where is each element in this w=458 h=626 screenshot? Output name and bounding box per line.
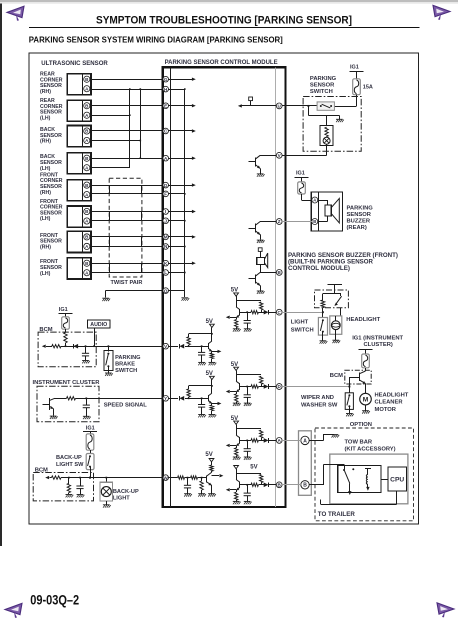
wire module pin B to connector B xyxy=(282,484,301,486)
svg-text:PARKING: PARKING xyxy=(347,206,374,212)
connector pin B xyxy=(301,481,309,489)
ultrasonic sensor REAR CORNER SENSOR (RH) xyxy=(40,72,91,95)
comparator arrow (tow bar input A) xyxy=(230,445,236,447)
diode (speed signal input) xyxy=(179,396,184,401)
parking brake switch xyxy=(104,345,113,372)
internal signal arrow (pin K) xyxy=(169,263,193,265)
transistor (parking brake input buffer) xyxy=(209,341,212,351)
module pin L xyxy=(163,270,169,276)
internal buzzer (front) speaker symbol xyxy=(257,248,268,273)
collector feed (parking brake input) xyxy=(211,334,213,341)
ground (divider resistor back-up) xyxy=(198,494,206,497)
wire module pin U to switch xyxy=(282,105,317,107)
svg-text:B: B xyxy=(303,483,307,489)
wire front RH pin A to module pin N xyxy=(91,246,163,248)
module pin V xyxy=(163,343,169,349)
signal arrow into logic (parking brake input) xyxy=(212,351,217,353)
series resistor 2 (back-up input) xyxy=(191,476,198,479)
wire front corner LH pin A to module pin J xyxy=(91,220,163,222)
ground (emitter resistor parking brake input) xyxy=(209,362,217,365)
twist pair crossover front corner RH xyxy=(109,185,111,194)
comparator arrow (tow bar input B) xyxy=(230,489,236,491)
5V supply triangle (tow bar input A) xyxy=(234,421,239,424)
wire front corner LH pin B to module pin I xyxy=(91,211,163,213)
filter capacitor (speed signal input) xyxy=(198,405,205,408)
ultrasonic sensor FRONT SENSOR (RH) xyxy=(40,231,91,252)
relay contact lever xyxy=(335,296,342,305)
IG1 feed bar (rear buzzer) xyxy=(295,177,309,179)
ground (BCM back-up resistor) xyxy=(66,495,74,498)
module right pin B at y=484.8 xyxy=(276,482,282,488)
headlight relay feed bar xyxy=(328,284,342,286)
svg-text:IG1: IG1 xyxy=(350,65,359,71)
pull-up resistor (wiper washer input) xyxy=(260,376,263,384)
svg-text:(BUILT-IN PARKING SENSOR: (BUILT-IN PARKING SENSOR xyxy=(288,259,374,265)
transistor (light switch input buffer) xyxy=(236,307,240,318)
buzzer speaker symbol xyxy=(318,198,340,223)
svg-text:PARKING SENSOR SYSTEM WIRING D: PARKING SENSOR SYSTEM WIRING DIAGRAM [PA… xyxy=(29,34,283,44)
ground (emitter resistor light switch input) xyxy=(233,329,241,332)
internal wire pin U with arrow xyxy=(242,105,277,107)
BCM dash-dot box (headlight cleaner) xyxy=(345,370,371,384)
svg-text:I: I xyxy=(165,209,166,214)
internal signal arrow (pin D) xyxy=(169,185,193,187)
svg-text:L: L xyxy=(164,270,167,275)
fuse (rear buzzer IG1) xyxy=(298,182,306,194)
resistor (BCM pull-up) xyxy=(64,332,67,342)
wire CPU to trailer xyxy=(396,491,398,505)
signal arrow into logic (speed signal input) xyxy=(212,403,217,405)
module pin Q xyxy=(163,288,169,294)
ground (filter capacitor parking brake input) xyxy=(198,362,206,365)
fuse 15A (parking sensor switch) xyxy=(353,79,361,95)
svg-text:W: W xyxy=(164,475,169,480)
module inner line left xyxy=(170,67,172,507)
svg-text:J: J xyxy=(164,218,167,223)
wire BCM to motor xyxy=(365,384,367,394)
twist pair crossover front LH xyxy=(109,263,111,272)
BCM dash-dot box (back-up) xyxy=(33,473,93,501)
emitter resistor (light switch input) xyxy=(235,320,238,328)
capacitor branch (BCM) xyxy=(85,346,87,353)
5V supply triangle (speed signal input) xyxy=(210,376,215,379)
module pin N xyxy=(163,244,169,250)
resistor (BCM back-up series) xyxy=(52,476,62,479)
BCM dash-dot box xyxy=(38,332,96,367)
ground (parking brake switch) xyxy=(105,373,113,376)
fuse (BCM IG1) xyxy=(62,317,70,329)
transistor (speed signal, instrument cluster) xyxy=(43,398,55,416)
tow bar CPU box xyxy=(388,467,407,491)
5V supply triangle (light switch input) xyxy=(234,293,239,296)
ground (tow bar A) xyxy=(331,435,339,438)
svg-text:Y: Y xyxy=(164,396,167,401)
module pin E xyxy=(163,103,169,109)
module pin A xyxy=(163,155,169,161)
wire fuse to resistor (BCM) xyxy=(65,329,67,332)
internal signal arrow (pin G) xyxy=(169,79,193,81)
filter capacitor (wiper washer input) xyxy=(244,395,251,398)
svg-text:BACK-UP: BACK-UP xyxy=(113,489,139,495)
wire module pin Q to chassis ground xyxy=(106,290,163,292)
svg-text:PARKING: PARKING xyxy=(310,76,337,82)
divider resistor (back-up input) xyxy=(200,481,203,490)
internal terminal stub (pin U) xyxy=(250,101,252,106)
module pin I xyxy=(163,209,169,215)
BCM back-up wire to module pin W xyxy=(49,477,51,479)
comparator arrow (wiper washer input) xyxy=(230,391,236,393)
wire back RH pin B to module pin C xyxy=(91,130,163,132)
input line (tow bar input B) xyxy=(240,484,251,486)
5V supply triangle (back-up buffer) xyxy=(209,459,214,462)
internal return stub pin N xyxy=(169,246,185,248)
wire BCM base to wiper line xyxy=(349,377,351,393)
nav arrow bottom-left xyxy=(5,603,22,618)
svg-text:SYMPTOM TROUBLESHOOTING [PARKI: SYMPTOM TROUBLESHOOTING [PARKING SENSOR] xyxy=(96,15,352,27)
svg-text:(RH): (RH) xyxy=(40,139,51,145)
svg-text:(LH): (LH) xyxy=(40,216,51,222)
module pin M xyxy=(163,234,169,240)
switch illumination lamp xyxy=(320,126,333,146)
internal signal arrow (pin M) xyxy=(169,236,193,238)
svg-text:LIGHT SW: LIGHT SW xyxy=(56,462,84,468)
filter capacitor (tow bar input B) xyxy=(244,493,251,496)
wire front LH pin A to module pin L xyxy=(91,272,163,274)
BCM output wire to module pin V xyxy=(46,346,52,348)
filter capacitor branch (light switch input) xyxy=(247,312,249,320)
module right pin B at y=272.4 xyxy=(276,270,282,276)
svg-text:(RH): (RH) xyxy=(40,89,51,95)
transistor (tow bar input A buffer) xyxy=(236,435,240,446)
transistor (headlight cleaner driver) xyxy=(349,371,365,384)
ground (emitter resistor wiper washer input) xyxy=(233,403,241,406)
svg-text:BCM: BCM xyxy=(330,373,343,379)
module pin K xyxy=(163,260,169,266)
relay coil xyxy=(321,300,325,308)
ground (module internal, pin Q bus) xyxy=(181,298,189,301)
transistor (speed signal input buffer) xyxy=(209,393,212,403)
lamp series resistor xyxy=(325,127,328,136)
buzzer inner connector line xyxy=(318,192,320,231)
collector feed (speed signal input) xyxy=(211,386,213,393)
wire switch to lamp and ground xyxy=(308,106,310,116)
sensor return vertical bus 2 xyxy=(140,89,142,158)
ultrasonic sensor BACK SENSOR (RH) xyxy=(40,126,91,147)
svg-text:BRAKE: BRAKE xyxy=(115,361,135,367)
svg-text:M: M xyxy=(363,397,369,404)
svg-text:INSTRUMENT CLUSTER: INSTRUMENT CLUSTER xyxy=(33,380,101,386)
ground (emitter resistor tow bar input B) xyxy=(233,501,241,504)
transistor front buzzer driver xyxy=(248,272,260,290)
svg-text:HEADLIGHT: HEADLIGHT xyxy=(346,317,380,323)
emitter resistor (tow bar input B) xyxy=(235,492,238,500)
title underline xyxy=(29,27,420,29)
switch junction xyxy=(307,105,309,107)
wire lamp to module pin V(right) xyxy=(326,136,328,139)
wire rear corner LH pin B to module pin E xyxy=(91,105,163,107)
svg-text:5V: 5V xyxy=(206,319,213,325)
svg-text:(LH): (LH) xyxy=(40,271,51,277)
wire fuse to switch xyxy=(90,450,92,453)
ground (emitter of switch lamp driver) xyxy=(257,174,265,177)
internal driver collector wire (rear buzzer) xyxy=(260,221,276,223)
5V feed wire (wiper washer input) xyxy=(236,371,238,382)
parking sensor switch contact xyxy=(317,102,334,110)
buzzer pin B xyxy=(312,219,318,225)
ground (filter capacitor speed signal input) xyxy=(198,415,206,418)
headlight cleaner motor xyxy=(360,393,372,405)
svg-text:LIGHT: LIGHT xyxy=(291,320,309,326)
ground (emitter resistor tow bar input A) xyxy=(233,457,241,460)
emitter ground (back-up buffer) xyxy=(211,485,213,493)
module pin D xyxy=(163,182,169,188)
ground (cluster transistor emitter) xyxy=(50,416,58,419)
diagram outer frame xyxy=(29,53,419,524)
svg-text:B: B xyxy=(313,219,316,224)
twist pair crossover front corner LH xyxy=(109,212,111,221)
ground (BCM capacitor) xyxy=(82,361,90,364)
divider branch (BCM back-up) xyxy=(68,478,70,484)
filter capacitor branch (wiper washer input) xyxy=(247,387,249,395)
wire module pin Z to buzzer pin B xyxy=(282,221,312,223)
input line (speed signal input) xyxy=(169,398,179,400)
wire rear corner LH pin A to junction bus xyxy=(91,115,130,117)
svg-text:Q: Q xyxy=(164,288,168,293)
transistor rear buzzer driver xyxy=(248,222,260,240)
ultrasonic sensor REAR CORNER SENSOR (LH) xyxy=(40,98,91,121)
tow bar relay coil xyxy=(365,468,371,491)
svg-text:(LH): (LH) xyxy=(40,115,51,121)
wire fuse to BCM transistor xyxy=(365,368,367,371)
parking sensor buzzer (rear) box xyxy=(311,192,342,231)
capacitor branch (speed signal) xyxy=(86,398,88,405)
headlight lamp xyxy=(330,316,342,340)
ground (BCM back-up capacitor) xyxy=(77,495,85,498)
comparator arrow (light switch input) xyxy=(230,317,236,319)
svg-text:A: A xyxy=(303,438,307,444)
filter capacitor branch (parking brake input) xyxy=(201,346,203,352)
ground (filter capacitor tow bar input B) xyxy=(244,501,252,504)
emitter resistor (wiper washer input) xyxy=(235,394,238,402)
internal signal arrow (pin C) xyxy=(169,130,193,132)
svg-text:IG1 (INSTRUMENT: IG1 (INSTRUMENT xyxy=(352,335,403,341)
resistor (BCM back-up divider) xyxy=(67,483,70,492)
svg-text:HEADLIGHT: HEADLIGHT xyxy=(375,392,409,398)
module right pin D at y=386.5 xyxy=(276,384,282,390)
fuse (cluster IG1) xyxy=(362,354,370,368)
module right pin U at y=105.9 xyxy=(276,103,282,109)
wire back LH pin A to junction bus xyxy=(91,167,130,169)
ultrasonic sensor FRONT SENSOR (LH) xyxy=(40,258,91,279)
capacitor (BCM) xyxy=(82,353,89,356)
input line (tow bar input A) xyxy=(240,440,251,442)
svg-text:LIGHT: LIGHT xyxy=(113,496,130,502)
internal signal arrow (pin I) xyxy=(169,211,193,213)
svg-text:SENSOR: SENSOR xyxy=(347,212,372,218)
nav arrow bottom-right xyxy=(437,603,454,618)
transistor (wiper washer input buffer) xyxy=(236,381,240,392)
IG1 feed bar (parking sensor switch) xyxy=(350,71,364,73)
instrument cluster dash-dot box xyxy=(37,386,99,422)
svg-text:F: F xyxy=(164,192,167,197)
diode (light switch input) xyxy=(264,310,269,315)
internal sensor return bus to ground xyxy=(184,89,186,291)
ground (emitter of rear buzzer driver) xyxy=(257,240,265,243)
5V feed wire (light switch input) xyxy=(236,296,238,307)
svg-text:CONTROL MODULE): CONTROL MODULE) xyxy=(288,266,350,272)
tow bar harness connector box xyxy=(299,431,312,496)
module pin H xyxy=(163,86,169,92)
headlight relay dash-dot box xyxy=(315,290,349,308)
internal driver collector wire (front buzzer) xyxy=(260,272,276,274)
wire connector A to ground xyxy=(309,440,323,442)
wire module pin C(right) to light switch xyxy=(282,312,323,314)
IG1 feed bar (cluster) xyxy=(359,349,373,351)
svg-text:5V: 5V xyxy=(205,452,212,458)
svg-text:5V: 5V xyxy=(206,371,213,377)
module right pin C at y=312.2 xyxy=(276,309,282,315)
svg-text:(RH): (RH) xyxy=(40,190,51,196)
capacitor (BCM back-up) xyxy=(76,486,83,489)
svg-text:SWITCH: SWITCH xyxy=(310,89,333,95)
5V supply triangle (wiper washer input) xyxy=(234,367,239,370)
capacitor branch (BCM back-up) xyxy=(80,478,82,486)
sensor return vertical bus 1 xyxy=(129,89,131,168)
filter capacitor branch (back-up input) xyxy=(187,478,189,486)
internal return stub pin J xyxy=(169,220,185,222)
pull-up branch (parking brake input) xyxy=(188,345,190,346)
svg-text:CLEANER: CLEANER xyxy=(375,400,404,406)
module pin J xyxy=(163,218,169,224)
wiper and washer switch xyxy=(345,393,353,413)
signal arrow into logic (back-up) xyxy=(212,475,220,477)
ground (wiper and washer switch) xyxy=(346,414,354,417)
divider branch (back-up input) xyxy=(201,478,203,481)
wire to switch illumination lamp xyxy=(326,116,328,126)
svg-text:IG1: IG1 xyxy=(296,170,305,176)
wire front RH pin B to module pin M xyxy=(91,236,163,238)
wire front corner RH pin A to module pin F xyxy=(91,193,163,195)
svg-text:PARKING SENSOR BUZZER (FRONT): PARKING SENSOR BUZZER (FRONT) xyxy=(288,253,398,259)
ground (filter capacitor light switch input) xyxy=(244,329,252,332)
svg-text:(LH): (LH) xyxy=(40,166,51,172)
ground (emitter back-up buffer) xyxy=(208,494,216,497)
wire front corner RH pin B to module pin D xyxy=(91,185,163,187)
wire relay to CPU xyxy=(381,479,388,481)
ground (light switch) xyxy=(320,341,328,344)
5V supply triangle (parking brake input) xyxy=(210,324,215,327)
series resistor 1 (back-up input) xyxy=(178,476,185,479)
module pin G xyxy=(163,76,169,82)
wire AUDIO to brake wire xyxy=(94,328,96,346)
collector 5V feed (back-up buffer) xyxy=(211,471,213,472)
parking sensor control module box xyxy=(163,67,286,507)
svg-text:PARKING: PARKING xyxy=(115,355,140,361)
ground (speed signal capacitor) xyxy=(83,416,91,419)
svg-text:5V: 5V xyxy=(250,465,257,471)
svg-text:IG1: IG1 xyxy=(59,307,68,313)
wire rear corner RH pin B to module pin G xyxy=(91,79,163,81)
diode (BCM) xyxy=(73,344,78,349)
wire relay to headlight xyxy=(340,308,342,316)
svg-text:CLUSTER): CLUSTER) xyxy=(364,342,393,348)
svg-text:15A: 15A xyxy=(363,84,373,90)
twist pair dashed box xyxy=(109,178,142,277)
connector pin A xyxy=(301,436,309,444)
module right pin Z at y=221.5 xyxy=(276,219,282,225)
svg-text:(REAR): (REAR) xyxy=(347,225,367,231)
pull-up branch (speed signal input) xyxy=(188,397,190,398)
svg-text:SPEED SIGNAL: SPEED SIGNAL xyxy=(104,403,148,409)
pull-up resistor (tow bar input B) xyxy=(260,475,263,483)
svg-text:M: M xyxy=(164,235,168,240)
internal return stub pin L xyxy=(169,272,185,274)
svg-text:(KIT ACCESSORY): (KIT ACCESSORY) xyxy=(345,446,396,452)
series resistor (wiper washer input) xyxy=(251,385,258,388)
svg-text:09-03Q–2: 09-03Q–2 xyxy=(30,592,79,608)
filter capacitor (tow bar input A) xyxy=(244,449,251,452)
lamp (switch illumination) xyxy=(323,137,330,144)
tow bar relay contact xyxy=(343,464,354,495)
back-up light switch xyxy=(86,454,94,478)
filter capacitor (back-up input) xyxy=(184,485,191,488)
input line (light switch input) xyxy=(240,312,251,314)
headlight relay wires xyxy=(323,293,341,295)
ground (back-up light) xyxy=(103,505,111,508)
speed signal wire to module pin Y xyxy=(55,398,67,400)
wire front LH pin B to module pin K xyxy=(91,263,163,265)
diode (tow bar input A) xyxy=(264,438,269,443)
internal signal arrow (pin A) xyxy=(169,158,193,160)
svg-text:MOTOR: MOTOR xyxy=(375,407,397,413)
series resistor (light switch input) xyxy=(251,311,258,314)
transistor (back-up buffer) xyxy=(207,472,212,485)
ultrasonic sensor FRONT CORNER SENSOR (LH) xyxy=(40,199,91,227)
svg-text:BUZZER: BUZZER xyxy=(347,219,371,225)
filter capacitor branch (tow bar input A) xyxy=(247,440,249,448)
svg-text:TWIST PAIR: TWIST PAIR xyxy=(111,280,143,286)
IG1 feed bar (BCM) xyxy=(59,313,73,315)
series resistor (tow bar input B) xyxy=(251,483,258,486)
ground (headlight cleaner motor) xyxy=(362,411,370,414)
svg-text:IG1: IG1 xyxy=(86,426,95,432)
diode (parking brake input) xyxy=(179,344,184,349)
svg-text:SWITCH: SWITCH xyxy=(115,368,137,374)
AUDIO unit box xyxy=(88,320,110,328)
module right pin V at y=155.3 xyxy=(276,152,282,158)
input line (wiper washer input) xyxy=(240,386,251,388)
diode (wiper washer input) xyxy=(264,384,269,389)
svg-text:CPU: CPU xyxy=(390,476,404,483)
module right pin A at y=440.4 xyxy=(276,438,282,444)
pull-up resistor (parking brake input) xyxy=(187,337,190,345)
light switch xyxy=(318,318,327,341)
module pin C xyxy=(163,128,169,134)
ground (emitter resistor speed signal input) xyxy=(209,415,217,418)
internal driver collector wire (switch lamp) xyxy=(260,155,276,157)
svg-text:WASHER SW: WASHER SW xyxy=(301,403,338,409)
transistor (tow bar input B buffer) xyxy=(236,480,240,491)
svg-text:AUDIO: AUDIO xyxy=(90,322,107,328)
emitter resistor (parking brake input) xyxy=(210,353,213,359)
ultrasonic sensor FRONT CORNER SENSOR (RH) xyxy=(40,172,91,200)
ground (filter capacitor back-up) xyxy=(184,494,192,497)
ground (pin Q harness) xyxy=(102,298,110,301)
collector resistor (back-up buffer) xyxy=(210,465,213,471)
svg-text:SENSOR: SENSOR xyxy=(310,83,335,89)
fuse (back-up IG1) xyxy=(86,434,94,450)
internal return stub pin H xyxy=(169,89,185,91)
